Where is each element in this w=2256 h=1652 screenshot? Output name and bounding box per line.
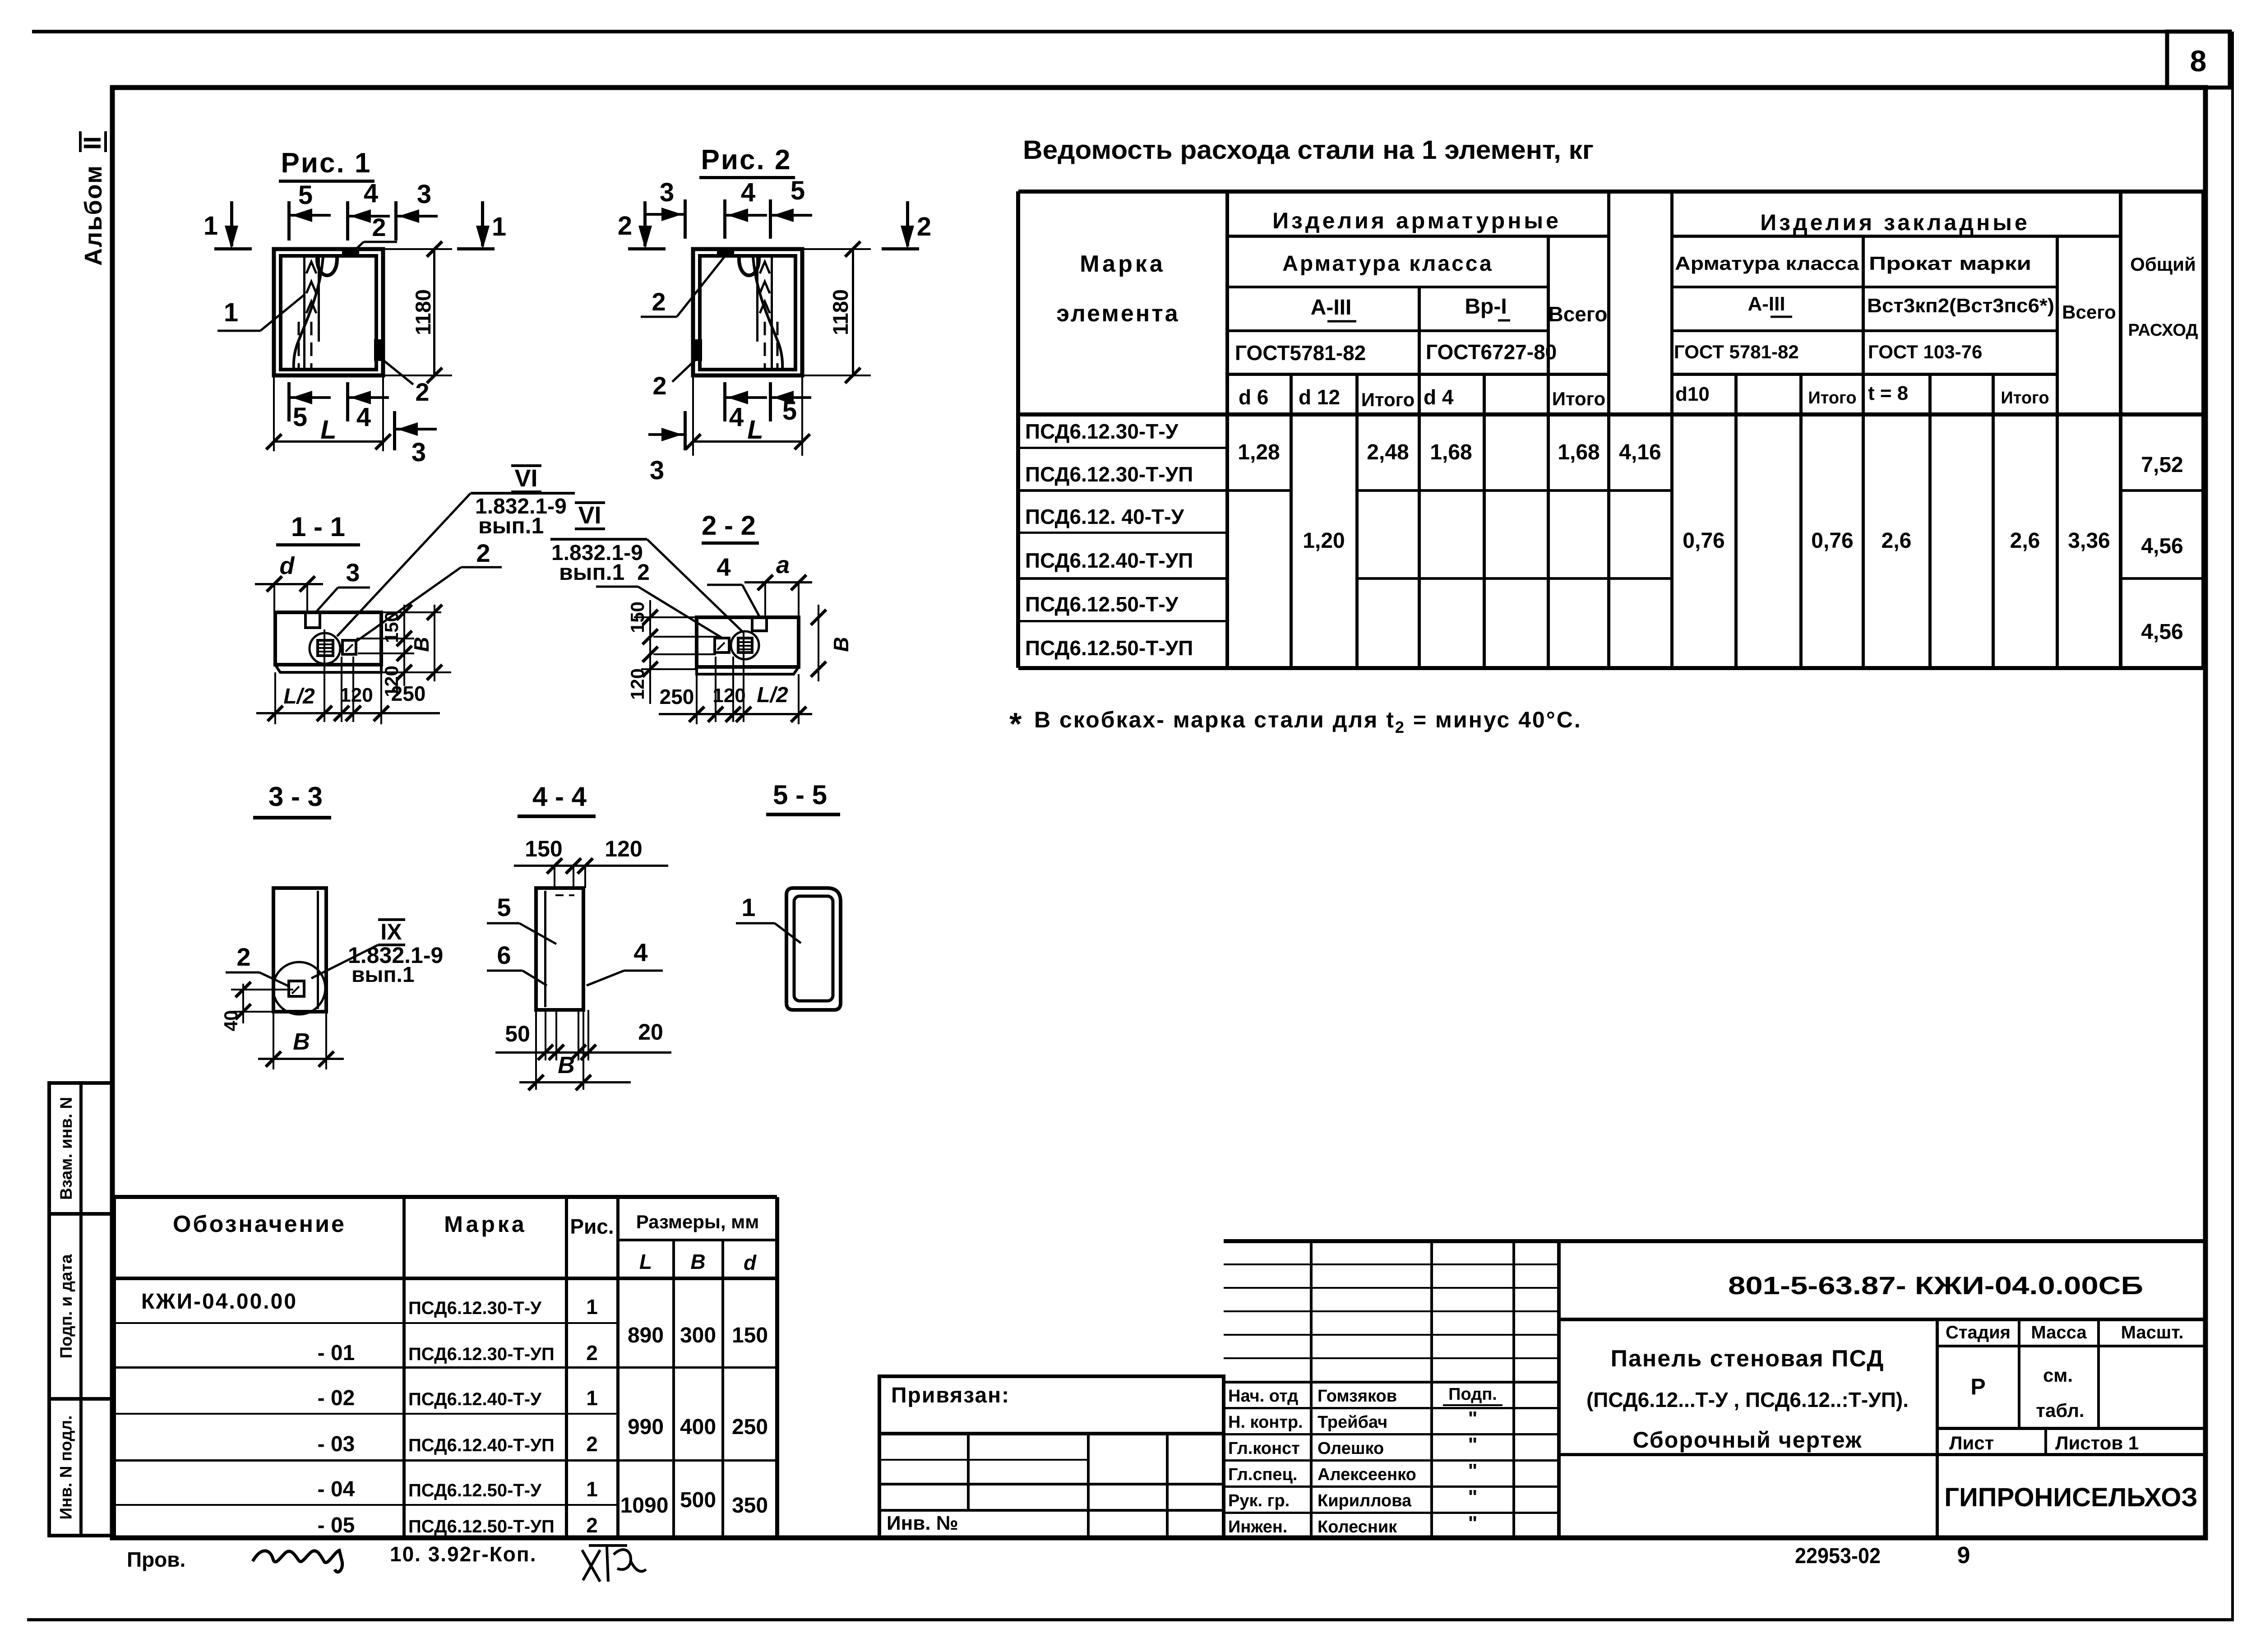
Рис.2 embedded plate top (item 2) <box>717 250 734 256</box>
svg-text:(ПСД6.12...Т-У , ПСД6.12..:Т-У: (ПСД6.12...Т-У , ПСД6.12..:Т-УП). <box>1586 1388 1909 1411</box>
Рис.1 grain chevrons <box>306 262 316 273</box>
svg-text:Итого: Итого <box>1808 389 1856 407</box>
svg-text:5: 5 <box>298 180 313 210</box>
svg-text:5: 5 <box>782 396 797 426</box>
svg-text:4,56: 4,56 <box>2141 620 2183 644</box>
svg-text:2 - 2: 2 - 2 <box>702 510 756 541</box>
svg-text:ПСД6.12.30-Т-У: ПСД6.12.30-Т-У <box>408 1298 542 1318</box>
Рис.2 wood grain line A <box>771 256 773 370</box>
svg-text:Нач. отд: Нач. отд <box>1228 1387 1298 1406</box>
album numeral II <box>79 131 106 152</box>
svg-text:1,68: 1,68 <box>1558 440 1600 464</box>
Рис.2 section mark 4 top <box>723 199 726 239</box>
svg-text:5: 5 <box>791 176 805 205</box>
svg-text:4,16: 4,16 <box>1619 440 1661 464</box>
svg-text:4 - 4: 4 - 4 <box>532 782 587 812</box>
svg-text:ПСД6.12. 40-Т-У: ПСД6.12. 40-Т-У <box>1025 505 1184 528</box>
svg-text:Колесник: Колесник <box>1318 1518 1397 1536</box>
svg-text:ПСД6.12.50-Т-УП: ПСД6.12.50-Т-УП <box>408 1517 555 1536</box>
svg-text:990: 990 <box>628 1415 664 1439</box>
section 3-3 dimension 40 <box>231 989 293 990</box>
svg-text:ГОСТ5781-82: ГОСТ5781-82 <box>1235 341 1366 365</box>
svg-text:2: 2 <box>236 943 250 971</box>
svg-text:- 05: - 05 <box>318 1513 355 1537</box>
привязан grid <box>967 1434 970 1510</box>
section 2-2 bottom dimension chain <box>659 713 812 715</box>
svg-text:Рис. 1: Рис. 1 <box>281 148 372 179</box>
checker signature <box>253 1550 342 1572</box>
привязан box <box>879 1376 1224 1434</box>
svg-text:": " <box>1468 1407 1478 1430</box>
svg-text:400: 400 <box>680 1415 716 1439</box>
section 3-3 dimension B <box>273 1012 274 1069</box>
svg-text:120: 120 <box>340 684 373 706</box>
svg-text:Марка: Марка <box>1080 251 1165 277</box>
svg-text:Обозначение: Обозначение <box>173 1211 346 1237</box>
svg-text:Итого: Итого <box>2001 389 2049 407</box>
section 3-3 callout IX leader <box>311 945 378 978</box>
svg-text:- 04: - 04 <box>318 1477 355 1501</box>
svg-text:Изделия арматурные: Изделия арматурные <box>1272 208 1561 233</box>
Рис.2 lifting loop <box>739 257 759 275</box>
svg-text:Листов 1: Листов 1 <box>2055 1432 2139 1453</box>
svg-text:B: B <box>293 1029 310 1055</box>
Рис.2 grain curve <box>753 257 782 370</box>
section 3-3 detail circle <box>273 962 325 1014</box>
Рис.2 dimension L <box>692 375 694 456</box>
svg-text:7,52: 7,52 <box>2141 453 2183 477</box>
svg-text:2,6: 2,6 <box>2010 529 2040 553</box>
Рис.2 section mark 2 right <box>906 201 909 246</box>
svg-text:ГОСТ 103-76: ГОСТ 103-76 <box>1868 341 1982 362</box>
svg-text:L/2: L/2 <box>757 683 788 707</box>
Рис.1 section mark 3 top <box>394 201 398 241</box>
svg-text:d 4: d 4 <box>1424 385 1454 409</box>
svg-text:4: 4 <box>741 178 755 207</box>
svg-text:Масшт.: Масшт. <box>2121 1323 2184 1342</box>
svg-text:Прокат марки: Прокат марки <box>1869 253 2031 274</box>
svg-text:ГОСТ6727-80: ГОСТ6727-80 <box>1426 340 1557 364</box>
sheet number box <box>2167 32 2230 88</box>
section 2-2 top notch (item 4) <box>752 617 767 631</box>
svg-text:d: d <box>744 1251 757 1274</box>
Рис.2 dimension 1180 <box>802 248 871 250</box>
svg-text:ПСД6.12.50-Т-УП: ПСД6.12.50-Т-УП <box>1025 636 1193 660</box>
sheet bottom outer edge line <box>27 1618 2234 1621</box>
Рис.1 lifting loop <box>317 257 337 275</box>
section 2-2 dimension 150/120 chain <box>649 600 651 704</box>
svg-text:2: 2 <box>652 371 666 400</box>
svg-text:3: 3 <box>346 558 360 587</box>
section 1-1 bar bottom strip <box>275 665 381 672</box>
svg-text:350: 350 <box>732 1494 768 1518</box>
svg-text:20: 20 <box>638 1019 663 1045</box>
svg-text:А-III: А-III <box>1311 296 1352 319</box>
svg-text:Н. контр.: Н. контр. <box>1228 1413 1303 1432</box>
svg-text:- 03: - 03 <box>318 1432 355 1456</box>
section 2-2 bar outline <box>697 617 799 667</box>
svg-text:II: II <box>79 136 106 150</box>
svg-text:ГИПРОНИСЕЛЬХОЗ: ГИПРОНИСЕЛЬХОЗ <box>1944 1483 2198 1512</box>
staff table grid <box>1310 1241 1313 1538</box>
svg-text:см.: см. <box>2043 1365 2073 1386</box>
Рис.2 dashed axis lines <box>777 322 779 370</box>
svg-text:Панель стеновая ПСД: Панель стеновая ПСД <box>1611 1346 1885 1372</box>
svg-text:IX: IX <box>380 919 402 944</box>
svg-text:Арматура класса: Арматура класса <box>1282 252 1493 276</box>
svg-text:Инв. N подл.: Инв. N подл. <box>57 1416 75 1520</box>
Рис.1 section mark 1 left <box>230 201 233 246</box>
Рис.1 section mark 3 bottom <box>393 411 396 450</box>
svg-text:4,56: 4,56 <box>2141 534 2183 558</box>
svg-text:3: 3 <box>411 438 426 467</box>
svg-text:2,6: 2,6 <box>1882 529 1912 553</box>
svg-text:2,48: 2,48 <box>1367 440 1409 464</box>
svg-text:Гл.спец.: Гл.спец. <box>1228 1465 1297 1484</box>
svg-text:L/2: L/2 <box>283 685 315 708</box>
svg-text:2: 2 <box>586 1341 598 1365</box>
svg-text:B: B <box>410 637 433 652</box>
section 2-2 circle detail VI <box>731 631 759 659</box>
svg-text:2: 2 <box>652 287 666 316</box>
svg-text:d 6: d 6 <box>1239 385 1268 409</box>
svg-text:Марка: Марка <box>444 1212 527 1237</box>
svg-text:элемента: элемента <box>1056 301 1179 327</box>
svg-text:150: 150 <box>627 602 648 633</box>
svg-text:Ведомость расхода стали на 1 э: Ведомость расхода стали на 1 элемент, кг <box>1023 135 1594 165</box>
svg-text:ПСД6.12.30-Т-УП: ПСД6.12.30-Т-УП <box>408 1344 555 1364</box>
Рис.1 bottom tick 4 <box>346 382 349 421</box>
section 1-1 circle detail VI <box>310 633 340 664</box>
svg-text:Общий: Общий <box>2130 254 2196 275</box>
svg-text:250: 250 <box>732 1415 768 1439</box>
svg-text:Арматура класса: Арматура класса <box>1675 253 1859 274</box>
section 2-2 bottom extension lines <box>696 674 698 724</box>
svg-text:890: 890 <box>628 1323 664 1347</box>
svg-text:": " <box>1468 1434 1478 1456</box>
svg-text:B: B <box>558 1052 575 1078</box>
svg-text:9: 9 <box>1957 1542 1970 1569</box>
svg-text:КЖИ-04.00.00: КЖИ-04.00.00 <box>141 1290 297 1314</box>
svg-text:Подп.: Подп. <box>1448 1385 1497 1404</box>
svg-text:4: 4 <box>717 553 730 581</box>
svg-text:d 12: d 12 <box>1299 385 1340 409</box>
svg-text:3 - 3: 3 - 3 <box>268 782 323 812</box>
svg-text:1: 1 <box>586 1295 598 1319</box>
section 1-1 dimension 150/120 chain <box>403 605 405 686</box>
svg-text:Альбом: Альбом <box>80 165 107 266</box>
svg-text:В скобках- марка стали для t2: В скобках- марка стали для t2 = минус 40… <box>1034 707 1582 736</box>
section 2-2 small square (item 2) <box>715 638 729 652</box>
section 4-4 dimension B <box>535 1010 537 1090</box>
svg-text:2: 2 <box>586 1432 598 1456</box>
svg-text:4: 4 <box>364 179 378 208</box>
svg-text:Трейбач: Трейбач <box>1318 1413 1387 1432</box>
svg-text:3: 3 <box>650 456 664 485</box>
svg-text:a: a <box>776 551 790 578</box>
svg-text:801-5-63.87- КЖИ-04.0.00СБ: 801-5-63.87- КЖИ-04.0.00СБ <box>1728 1271 2143 1300</box>
section 1-1 dimension d <box>255 583 323 585</box>
svg-text:150: 150 <box>732 1323 768 1347</box>
svg-text:Гомзяков: Гомзяков <box>1318 1387 1397 1406</box>
section 1-1 bottom dimension chain <box>256 712 440 714</box>
svg-text:ПСД6.12.50-Т-У: ПСД6.12.50-Т-У <box>1025 592 1179 616</box>
section 2-2 left extension lines <box>634 616 697 618</box>
svg-text:3: 3 <box>660 178 674 207</box>
svg-text:2: 2 <box>586 1513 598 1537</box>
svg-text:6: 6 <box>497 941 511 969</box>
Рис.2 embedded plate left (item 2) <box>694 339 702 361</box>
svg-text:ПСД6.12.40-Т-УП: ПСД6.12.40-Т-УП <box>1025 549 1193 572</box>
svg-text:- 01: - 01 <box>318 1341 355 1365</box>
sheet top margin line <box>32 30 2168 33</box>
section 4-4 bar outline <box>536 888 583 1010</box>
leader 2 to section 2-2 plate <box>596 586 638 588</box>
svg-text:L: L <box>747 415 763 444</box>
svg-text:Изделия закладные: Изделия закладные <box>1760 210 2030 235</box>
svg-text:Пров.: Пров. <box>127 1548 185 1571</box>
Рис.2 section mark 2 left <box>643 201 647 246</box>
svg-text:1: 1 <box>492 212 506 241</box>
svg-text:вып.1: вып.1 <box>478 513 544 538</box>
svg-text:Р: Р <box>1970 1374 1985 1399</box>
svg-text:120: 120 <box>627 668 648 700</box>
svg-text:10. 3.92г-Коп.: 10. 3.92г-Коп. <box>390 1542 536 1566</box>
stamp box Подп. и дата <box>49 1214 112 1399</box>
svg-text:Масса: Масса <box>2031 1323 2087 1342</box>
section 2-2 dimension a <box>744 581 812 583</box>
svg-text:4: 4 <box>729 403 744 432</box>
Рис.1 wood grain line A <box>303 256 305 370</box>
callout VI leader to section 2-2 <box>647 539 744 633</box>
Рис.1 section mark 1 right <box>481 201 484 246</box>
copyist signature <box>582 1546 646 1582</box>
section 2-2 dimension B <box>818 605 819 681</box>
Рис.1 embedded plate right (item 2) <box>374 339 382 361</box>
svg-text:Всего: Всего <box>2062 301 2116 323</box>
svg-text:4: 4 <box>356 403 371 432</box>
Рис.1 wood grain line B <box>318 256 320 342</box>
svg-text:22953-02: 22953-02 <box>1795 1544 1881 1568</box>
svg-text:5 - 5: 5 - 5 <box>773 780 827 810</box>
section 4-4 bar left strip <box>544 891 546 1007</box>
stamp box Инв.N подл. <box>49 1399 112 1536</box>
section 1-1 bottom extension lines <box>274 672 276 724</box>
svg-text:VI: VI <box>578 502 601 529</box>
svg-text:150: 150 <box>381 611 402 643</box>
svg-text:ПСД6.12.30-Т-У: ПСД6.12.30-Т-У <box>1025 420 1179 443</box>
section 2-2 hatched square <box>738 638 752 652</box>
svg-text:Олешко: Олешко <box>1318 1439 1384 1458</box>
section 5-5 frame outer outline <box>786 888 841 1010</box>
svg-text:ПСД6.12.40-Т-У: ПСД6.12.40-Т-У <box>408 1389 542 1409</box>
Рис.1 dashed axis lines <box>298 322 300 370</box>
parts table grid <box>112 1197 116 1536</box>
svg-text:1: 1 <box>741 893 755 921</box>
Рис.1 section mark 4 top <box>346 201 349 241</box>
section 1-1 hatched square <box>318 640 333 656</box>
svg-text:Вст3кп2(Вст3пс6*): Вст3кп2(Вст3пс6*) <box>1867 295 2054 317</box>
Рис.1 panel outer outline <box>274 249 383 375</box>
svg-text:Инв. №: Инв. № <box>887 1512 958 1534</box>
svg-text:2: 2 <box>372 213 386 241</box>
svg-text:B: B <box>690 1250 705 1273</box>
svg-text:Размеры, мм: Размеры, мм <box>636 1211 759 1232</box>
svg-text:Всего: Всего <box>1548 302 1607 326</box>
stamp box Взам.инв.N <box>49 1083 112 1214</box>
svg-text:Стадия: Стадия <box>1946 1323 2011 1342</box>
svg-text:Вр-I: Вр-I <box>1465 295 1507 319</box>
svg-text:Рук. гр.: Рук. гр. <box>1228 1491 1290 1510</box>
Рис.1 section mark 5 top <box>287 201 291 241</box>
svg-text:Инжен.: Инжен. <box>1228 1518 1287 1536</box>
svg-text:d: d <box>280 552 295 579</box>
svg-text:t = 8: t = 8 <box>1868 382 1908 404</box>
svg-text:": " <box>1468 1460 1478 1482</box>
svg-text:Подп. и дата: Подп. и дата <box>57 1254 75 1358</box>
section 3-3 small square (item 2) <box>289 981 304 996</box>
Рис.2 section mark 3 bottom <box>684 411 687 450</box>
svg-text:250: 250 <box>660 685 694 708</box>
svg-text:2: 2 <box>618 211 632 241</box>
svg-text:*: * <box>1009 706 1022 741</box>
svg-text:L: L <box>639 1250 652 1273</box>
Рис.2 panel outer outline <box>693 249 802 375</box>
svg-text:120: 120 <box>605 836 642 861</box>
svg-text:8: 8 <box>2190 44 2207 78</box>
svg-text:0,76: 0,76 <box>1811 529 1853 553</box>
title block grid <box>1936 1319 1939 1538</box>
svg-text:L: L <box>320 415 336 444</box>
svg-text:0,76: 0,76 <box>1683 529 1724 553</box>
Рис.2 panel inner outline <box>700 256 795 370</box>
svg-text:1: 1 <box>586 1477 598 1501</box>
svg-text:1,20: 1,20 <box>1303 529 1345 553</box>
svg-text:ПСД6.12.50-Т-У: ПСД6.12.50-Т-У <box>408 1481 542 1500</box>
svg-text:1,28: 1,28 <box>1238 440 1280 464</box>
Рис.1 panel inner outline <box>281 256 376 370</box>
svg-text:1 - 1: 1 - 1 <box>291 512 345 542</box>
section 1-1 dimension B <box>434 605 435 681</box>
svg-text:Итого: Итого <box>1361 389 1415 410</box>
svg-text:2: 2 <box>917 212 931 241</box>
svg-text:B: B <box>829 637 853 652</box>
Рис.1 dimension L <box>273 375 275 451</box>
svg-text:3: 3 <box>417 180 431 209</box>
Рис.1 embedded plate top (item 2) <box>342 250 359 256</box>
section 4-4 bottom dimension 50/20 <box>545 1010 546 1060</box>
Рис.2 grain chevrons <box>760 262 770 273</box>
svg-text:Привязан:: Привязан: <box>891 1384 1010 1407</box>
svg-text:1: 1 <box>586 1386 598 1410</box>
svg-text:РАСХОД: РАСХОД <box>2128 321 2198 340</box>
section 2-2 bar bottom strip <box>697 667 799 674</box>
Рис.2 wood grain line B <box>756 256 758 342</box>
svg-text:Гл.конст: Гл.конст <box>1228 1439 1300 1458</box>
svg-text:вып.1: вып.1 <box>351 963 415 987</box>
svg-text:1090: 1090 <box>620 1494 669 1518</box>
section 3-3 bar outline <box>273 888 326 1012</box>
section 1-1 top notch (item 3) <box>305 612 320 628</box>
svg-text:250: 250 <box>391 682 426 705</box>
Рис.2 bottom tick 4 <box>723 382 726 421</box>
section 3-3 bar right strip <box>317 891 319 1009</box>
Рис.1 bottom tick 5 <box>287 382 291 421</box>
svg-text:Алексеенко: Алексеенко <box>1318 1465 1416 1484</box>
svg-text:300: 300 <box>680 1323 716 1347</box>
section 1-1 small square (item 2) <box>342 640 356 654</box>
svg-text:Итого: Итого <box>1552 388 1605 409</box>
svg-text:табл.: табл. <box>2036 1400 2084 1421</box>
svg-text:А-III: А-III <box>1747 293 1785 315</box>
svg-text:Лист: Лист <box>1949 1432 1994 1453</box>
svg-text:40: 40 <box>220 1010 241 1032</box>
svg-text:Сборочный чертеж: Сборочный чертеж <box>1632 1427 1862 1453</box>
svg-text:1180: 1180 <box>828 289 852 335</box>
callout VI leader to section 1-1 <box>337 493 471 636</box>
svg-text:- 02: - 02 <box>318 1386 355 1410</box>
section 4-4 hidden notch dashes <box>555 894 574 896</box>
svg-text:Кириллова: Кириллова <box>1318 1491 1412 1510</box>
svg-text:ПСД6.12.40-Т-УП: ПСД6.12.40-Т-УП <box>408 1435 555 1455</box>
svg-text:1180: 1180 <box>411 289 435 335</box>
svg-text:": " <box>1468 1486 1478 1508</box>
svg-text:Рис. 2: Рис. 2 <box>701 144 792 176</box>
svg-text:ПСД6.12.30-Т-УП: ПСД6.12.30-Т-УП <box>1025 463 1193 486</box>
svg-text:5: 5 <box>497 893 511 921</box>
svg-text:3,36: 3,36 <box>2068 529 2110 553</box>
svg-text:Рис.: Рис. <box>570 1215 614 1238</box>
svg-text:ГОСТ 5781-82: ГОСТ 5781-82 <box>1674 341 1799 362</box>
svg-text:d10: d10 <box>1675 383 1710 405</box>
Рис.1 dimension 1180 <box>383 248 452 250</box>
svg-text:4: 4 <box>633 938 647 967</box>
svg-text:": " <box>1468 1512 1478 1534</box>
Рис.2 bottom tick 5 <box>769 382 772 421</box>
steel table grid <box>1016 191 1020 668</box>
Рис.2 section mark 3 top <box>684 199 687 239</box>
svg-text:VI: VI <box>514 465 537 492</box>
svg-text:50: 50 <box>505 1021 530 1046</box>
svg-text:120: 120 <box>712 685 745 707</box>
sheet right outer edge line <box>2231 32 2234 1621</box>
svg-text:1: 1 <box>203 211 218 241</box>
album label <box>80 165 107 266</box>
svg-text:вып.1 2: вып.1 2 <box>559 560 650 585</box>
svg-text:5: 5 <box>293 403 307 432</box>
Рис.2 section mark 5 top <box>769 199 772 239</box>
section 1-1 bar outline <box>275 612 381 665</box>
Рис.1 grain curve <box>294 257 323 370</box>
svg-text:2: 2 <box>476 539 490 567</box>
section 5-5 frame inner outline <box>794 896 833 1001</box>
svg-text:1,68: 1,68 <box>1430 440 1472 464</box>
svg-text:500: 500 <box>680 1488 716 1512</box>
svg-text:1: 1 <box>224 298 238 327</box>
svg-text:150: 150 <box>525 836 562 861</box>
section 4-4 top dimension 150/120 <box>514 865 668 867</box>
svg-text:Взам. инв. N: Взам. инв. N <box>57 1097 75 1200</box>
section 1-1 right extension lines <box>381 611 441 613</box>
